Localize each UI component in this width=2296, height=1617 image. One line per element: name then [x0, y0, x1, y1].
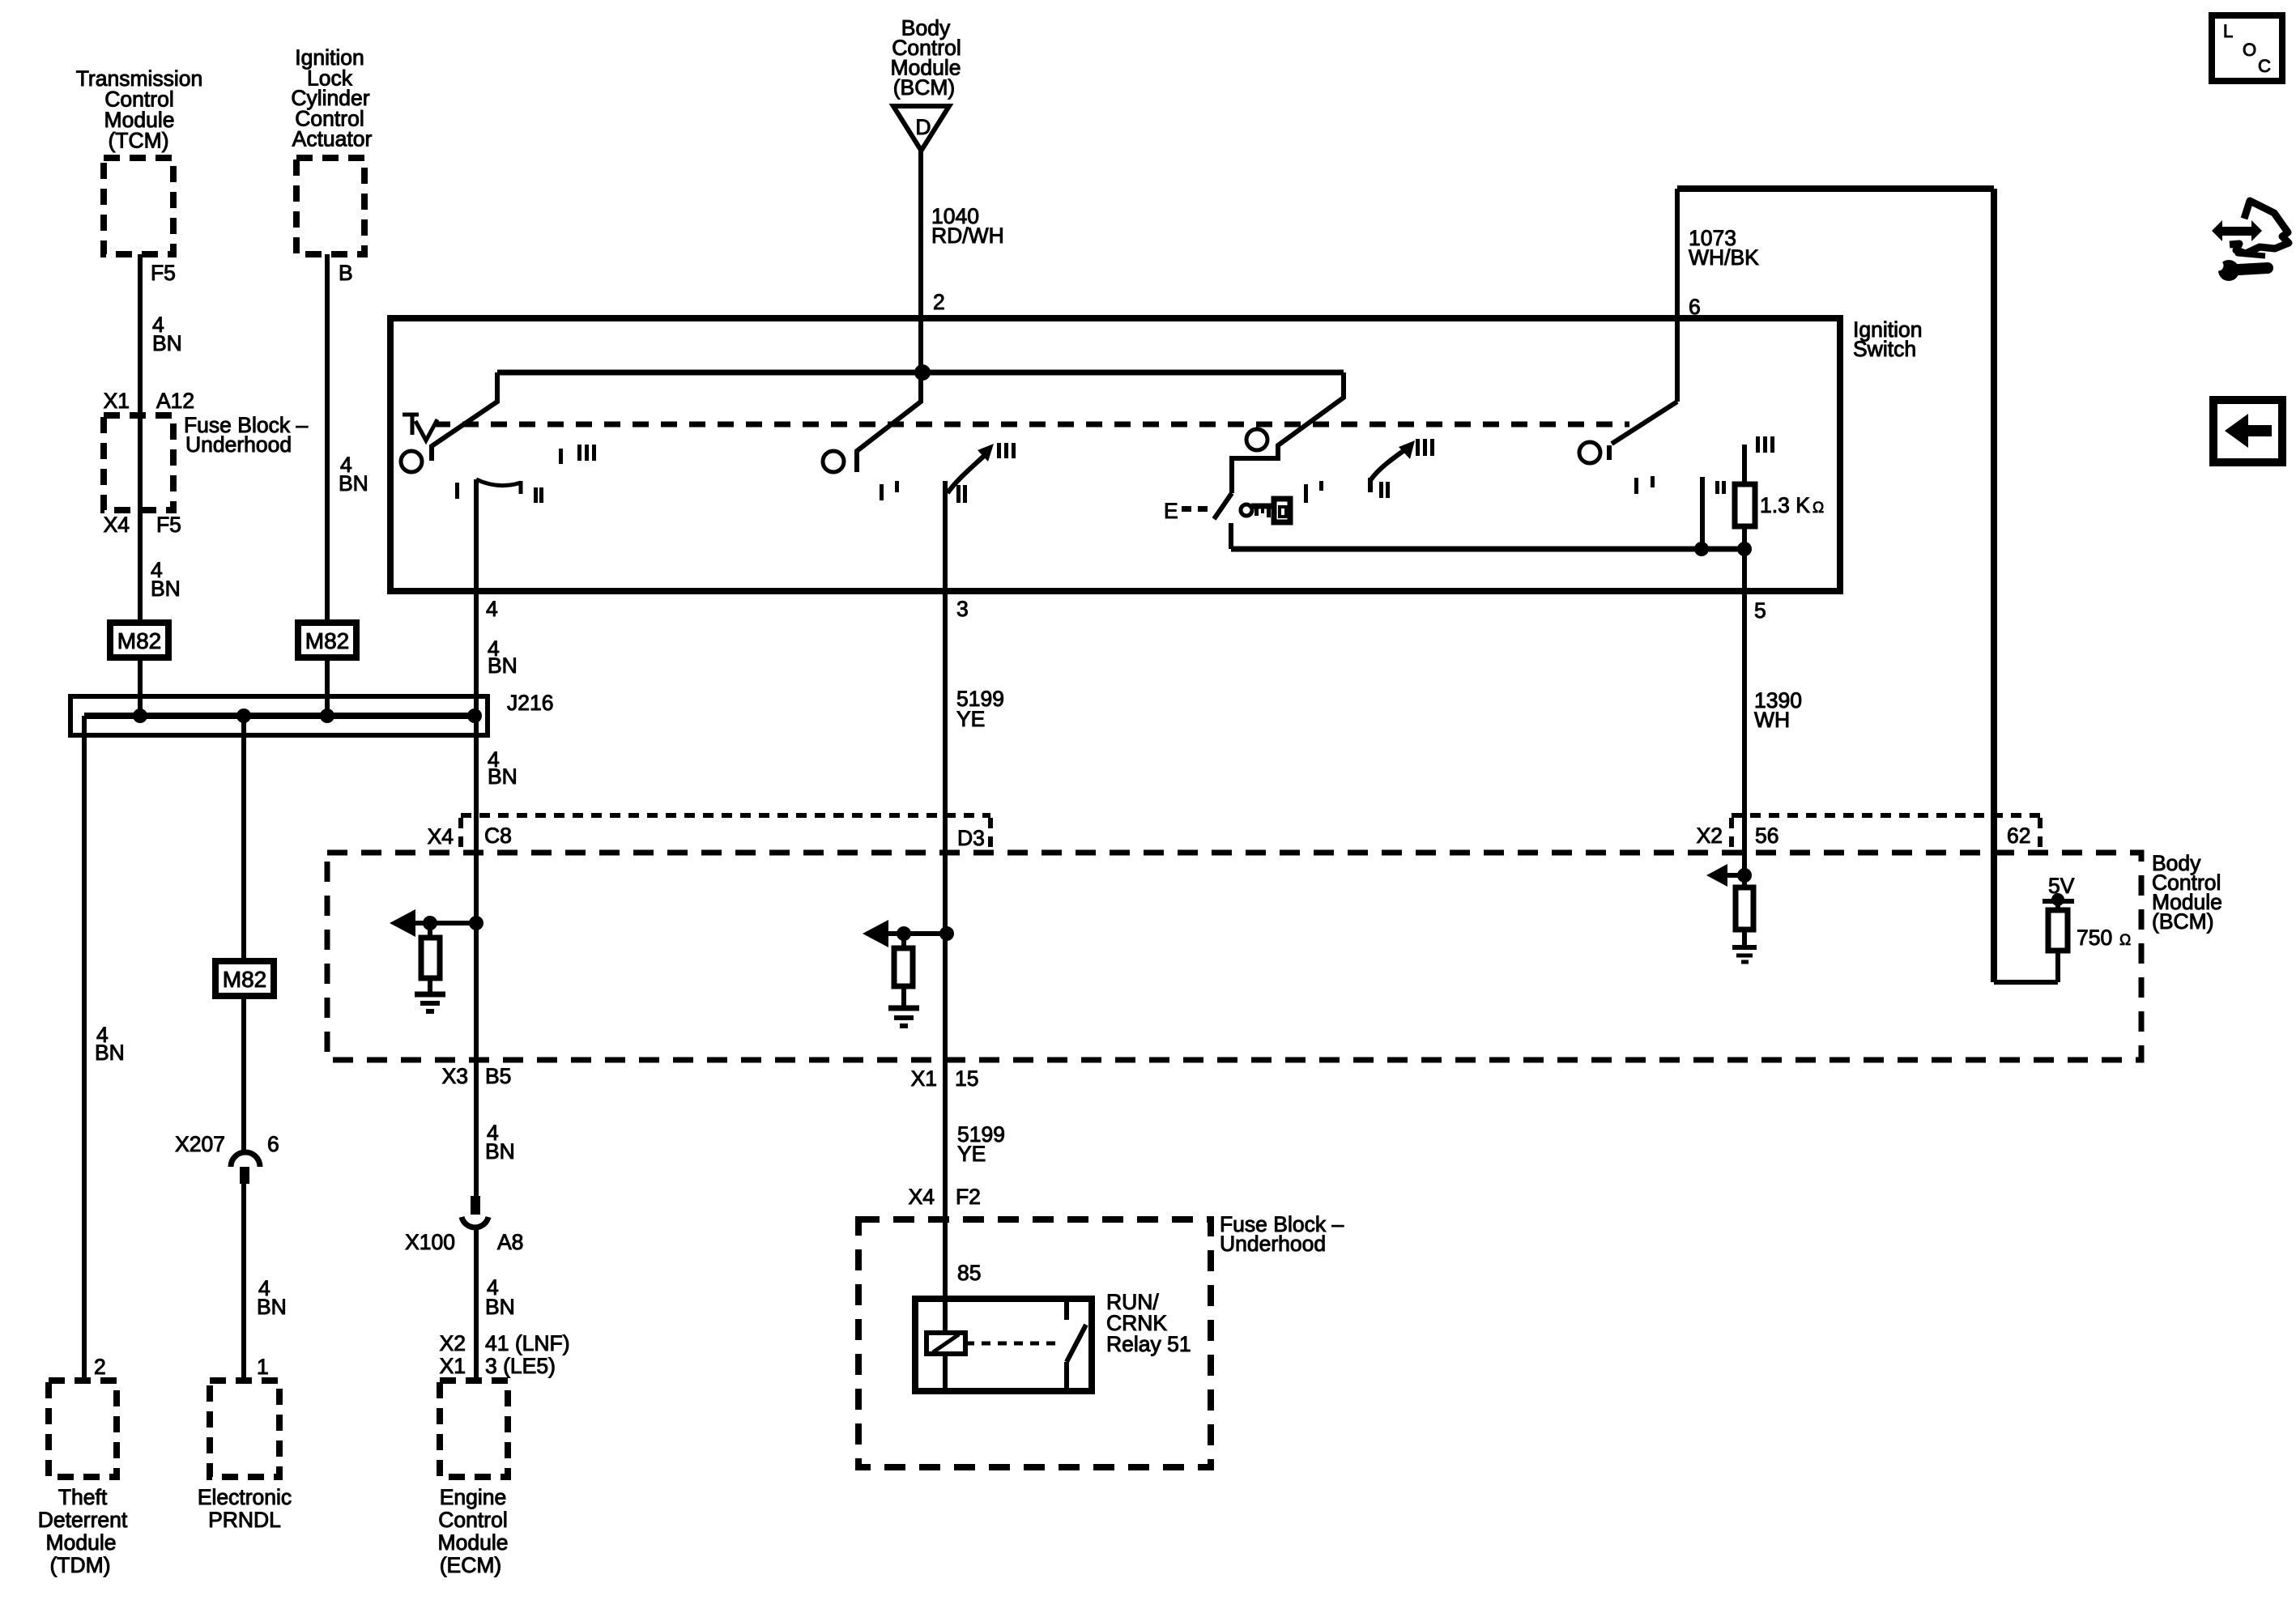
svg-text:BN: BN [488, 764, 518, 789]
svg-text:Switch: Switch [1853, 337, 1916, 361]
svg-text:M82: M82 [223, 967, 266, 992]
svg-text:X1: X1 [911, 1066, 937, 1091]
svg-text:B5: B5 [485, 1064, 511, 1088]
svg-text:1: 1 [257, 1355, 269, 1379]
svg-text:F5: F5 [156, 513, 181, 537]
svg-text:Theft: Theft [58, 1485, 108, 1509]
svg-text:BN: BN [339, 471, 368, 496]
svg-text:O: O [2243, 40, 2256, 60]
svg-text:62: 62 [2007, 823, 2030, 848]
svg-text:YE: YE [956, 707, 985, 731]
svg-text:F5: F5 [151, 261, 176, 285]
svg-text:F2: F2 [956, 1185, 981, 1209]
svg-text:15: 15 [955, 1066, 978, 1091]
svg-text:3 (LE5): 3 (LE5) [485, 1354, 556, 1378]
svg-text:(BCM): (BCM) [893, 75, 956, 100]
svg-text:RD/WH: RD/WH [931, 223, 1004, 248]
svg-text:Engine: Engine [440, 1485, 507, 1509]
svg-text:X100: X100 [405, 1230, 455, 1254]
svg-text:1.3 K: 1.3 K [1760, 493, 1810, 517]
svg-text:Actuator: Actuator [292, 127, 373, 151]
svg-text:Underhood: Underhood [1220, 1232, 1326, 1256]
svg-text:A12: A12 [156, 389, 194, 413]
svg-text:X1: X1 [440, 1354, 466, 1378]
svg-text:X4: X4 [104, 513, 130, 537]
svg-text:C: C [2258, 56, 2271, 76]
svg-text:WH: WH [1754, 708, 1790, 732]
svg-text:J216: J216 [507, 691, 553, 715]
svg-text:B: B [339, 261, 353, 285]
svg-text:Module: Module [438, 1530, 509, 1555]
svg-text:A8: A8 [497, 1230, 523, 1254]
svg-text:Control: Control [438, 1508, 507, 1532]
svg-text:PRNDL: PRNDL [208, 1508, 281, 1532]
svg-text:D3: D3 [957, 826, 985, 850]
svg-text:3: 3 [956, 597, 969, 621]
svg-text:41 (LNF): 41 (LNF) [485, 1331, 570, 1355]
svg-text:6: 6 [1689, 295, 1701, 319]
svg-text:Electronic: Electronic [198, 1485, 292, 1509]
svg-text:X2: X2 [1697, 823, 1723, 848]
svg-text:Ω: Ω [1813, 500, 1824, 517]
svg-text:WH/BK: WH/BK [1689, 245, 1759, 270]
svg-text:BN: BN [151, 577, 181, 601]
svg-text:BN: BN [485, 1139, 515, 1164]
svg-text:2: 2 [94, 1355, 106, 1379]
svg-text:C8: C8 [484, 823, 512, 848]
svg-text:E: E [1164, 499, 1178, 523]
svg-text:4: 4 [486, 597, 498, 621]
svg-text:(ECM): (ECM) [440, 1553, 502, 1577]
svg-text:56: 56 [1755, 823, 1778, 848]
svg-text:BN: BN [152, 331, 182, 355]
svg-text:X207: X207 [175, 1132, 225, 1156]
svg-text:BN: BN [257, 1295, 287, 1319]
svg-text:5: 5 [1754, 598, 1766, 623]
svg-text:X4: X4 [428, 824, 454, 849]
svg-text:D: D [915, 115, 931, 139]
svg-text:(TDM): (TDM) [49, 1553, 110, 1577]
svg-text:L: L [2223, 21, 2233, 41]
svg-text:Relay 51: Relay 51 [1106, 1332, 1191, 1356]
svg-text:BN: BN [485, 1295, 515, 1319]
svg-text:BN: BN [488, 653, 518, 678]
svg-text:X2: X2 [440, 1331, 466, 1355]
svg-text:X3: X3 [442, 1064, 468, 1088]
svg-text:X4: X4 [909, 1185, 935, 1209]
svg-text:2: 2 [933, 290, 945, 314]
svg-text:85: 85 [957, 1261, 981, 1285]
svg-text:BN: BN [95, 1040, 125, 1065]
svg-text:6: 6 [267, 1132, 279, 1156]
svg-text:X1: X1 [104, 389, 130, 413]
svg-text:M82: M82 [117, 628, 161, 653]
svg-text:YE: YE [957, 1142, 986, 1166]
svg-text:Deterrent: Deterrent [38, 1508, 128, 1532]
svg-text:Ω: Ω [2119, 932, 2131, 949]
svg-text:(BCM): (BCM) [2152, 909, 2214, 934]
svg-text:750: 750 [2077, 926, 2112, 950]
svg-text:Underhood: Underhood [185, 432, 292, 457]
svg-text:(TCM): (TCM) [108, 129, 168, 153]
svg-text:Module: Module [46, 1530, 117, 1555]
svg-text:5V: 5V [2048, 874, 2075, 898]
svg-text:M82: M82 [305, 628, 349, 653]
